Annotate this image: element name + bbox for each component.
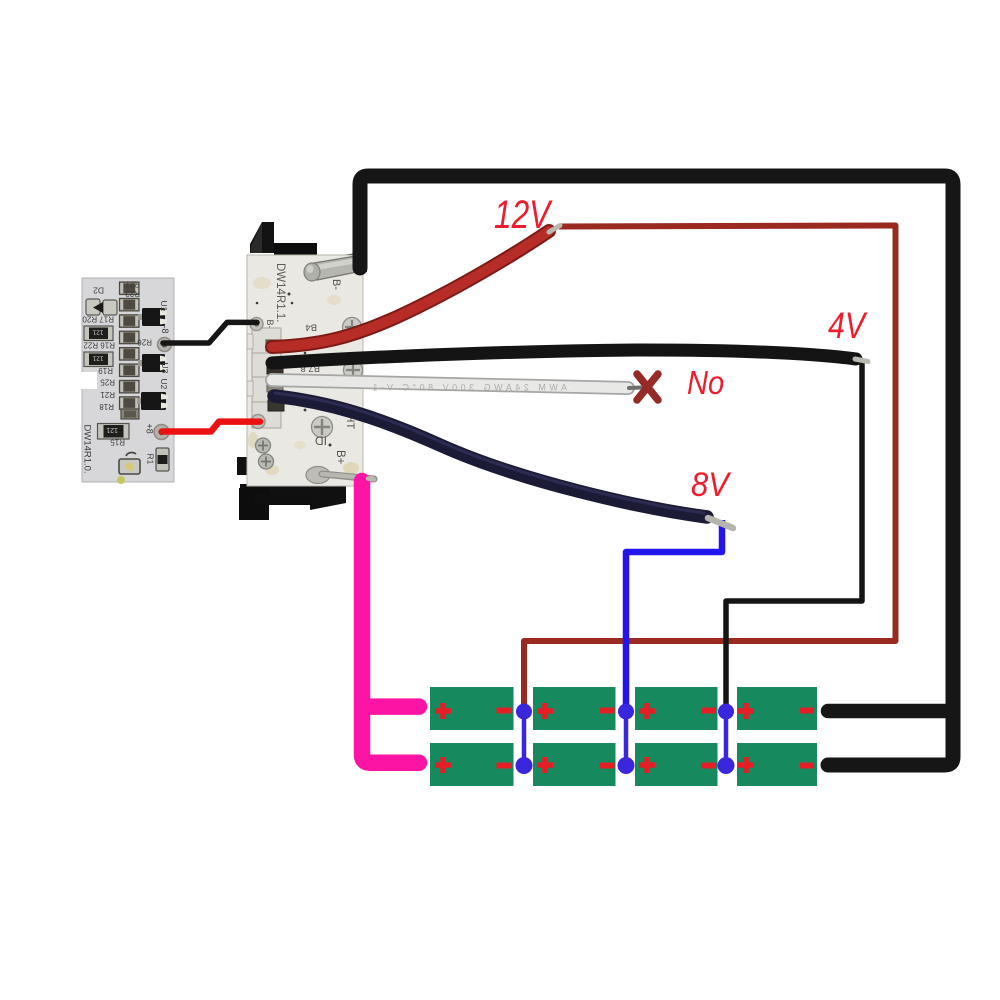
LED D2	[86, 299, 100, 315]
SOT23 U2	[137, 392, 168, 410]
cell 2 top	[533, 687, 616, 730]
SOT23 U3	[138, 354, 167, 372]
fiducial dots	[288, 293, 291, 296]
bracket top slab	[274, 243, 317, 256]
navy wire silver tip	[708, 518, 733, 528]
cell3 + -	[639, 703, 655, 719]
svg-text:U1: U1	[159, 301, 169, 312]
cell7 + -	[639, 757, 655, 773]
board	[82, 278, 174, 482]
red 12V wire	[272, 231, 549, 347]
cell8 + -	[738, 757, 754, 773]
svg-text:B4: B4	[305, 322, 317, 333]
svg-text:DW14R1.0.: DW14R1.0.	[82, 425, 93, 474]
red wire silver tip	[549, 226, 560, 233]
LED D1	[119, 459, 140, 474]
maroon 12V routing	[524, 226, 896, 712]
top-row cell black wire	[828, 704, 950, 719]
small green led bottom	[117, 476, 125, 484]
small screws bottom-left	[256, 438, 271, 453]
white wire	[272, 380, 628, 388]
svg-text:R17 R20: R17 R20	[82, 315, 114, 324]
svg-text:B-: B-	[330, 279, 342, 290]
crimp terminals	[266, 340, 282, 351]
cell 8 bottom	[737, 743, 817, 786]
svg-text:AWM 24AWG 300V 80°C V-1: AWM 24AWG 300V 80°C V-1	[369, 383, 567, 393]
svg-text:R23: R23	[125, 289, 140, 298]
black jumper wire B-	[163, 322, 257, 343]
svg-text:4V: 4V	[828, 305, 868, 347]
svg-text:+8: +8	[145, 424, 155, 434]
white wire tip	[629, 386, 642, 391]
screw 3	[312, 417, 333, 438]
jumper 2	[624, 712, 629, 766]
svg-text:R18: R18	[99, 402, 114, 411]
screw 1	[343, 318, 362, 337]
hole B+ central	[251, 415, 265, 429]
SOT23 U1	[138, 308, 167, 326]
red jumper wire B+	[162, 422, 260, 432]
bracket top-left black wedge	[250, 222, 274, 253]
cell1 + -	[435, 703, 451, 719]
cell 4 top	[737, 687, 817, 730]
R15	[98, 424, 130, 440]
cell5 + -	[435, 757, 451, 773]
resistor column R17-R27	[120, 282, 140, 419]
cell 6 bottom	[533, 743, 616, 786]
svg-text:R1: R1	[146, 454, 156, 465]
svg-text:ID: ID	[315, 434, 327, 448]
svg-text:R19: R19	[98, 366, 113, 375]
thin black 4V routing	[726, 360, 862, 711]
svg-text:U3: U3	[160, 363, 170, 374]
cell 5 bottom	[430, 743, 514, 786]
bottom solder blob + pin	[306, 467, 330, 484]
svg-text:R25: R25	[100, 378, 115, 387]
svg-text:R21: R21	[100, 390, 115, 399]
big resistor 2 (R22)	[84, 352, 113, 367]
bracket bottom pieces	[237, 457, 250, 475]
notch	[78, 372, 97, 389]
svg-text:B-: B-	[265, 320, 275, 329]
screw 2	[344, 361, 363, 380]
svg-text:12V: 12V	[494, 191, 553, 236]
solder blob top	[304, 263, 320, 281]
dark strip under lug	[315, 252, 367, 272]
svg-text:R15: R15	[110, 438, 125, 447]
black 4V wire	[272, 350, 856, 363]
big resistor 1 (R16)	[84, 326, 113, 341]
blue 8V routing	[626, 520, 722, 711]
navy 8V wire	[274, 396, 707, 517]
cell2 + -	[537, 703, 553, 719]
R1	[156, 448, 169, 471]
white connector	[252, 328, 281, 428]
cell 7 bottom	[635, 743, 718, 786]
svg-text:DW14R1.1.: DW14R1.1.	[274, 263, 286, 322]
hole +8 (red wire)	[154, 425, 169, 440]
svg-text:No: No	[687, 364, 724, 401]
pin tip over pink	[368, 476, 374, 481]
cell4 + -	[738, 703, 754, 719]
svg-text:8V: 8V	[691, 466, 732, 504]
svg-text:121: 121	[92, 354, 103, 361]
central white PCB board	[247, 255, 363, 486]
cell 1 top	[430, 687, 514, 730]
black wire silver tip	[855, 359, 868, 362]
cell6 + -	[537, 757, 553, 773]
jumper 3	[724, 712, 729, 766]
svg-text:D2: D2	[93, 286, 104, 296]
svg-text:R27: R27	[125, 280, 140, 289]
svg-text:-8: -8	[160, 326, 170, 334]
svg-text:121: 121	[92, 328, 103, 335]
hole -8 (black wire)	[158, 338, 172, 352]
svg-text:121: 121	[106, 426, 118, 433]
plus/minus marks	[435, 703, 814, 773]
svg-text:U2: U2	[159, 379, 169, 390]
X mark on white wire	[637, 374, 658, 400]
svg-text:R16 R22: R16 R22	[83, 341, 115, 350]
solder lug top	[314, 256, 362, 281]
svg-text:R26: R26	[137, 338, 152, 347]
jumper 1	[522, 712, 527, 766]
hole B- central	[250, 318, 263, 331]
cell 3 top	[635, 687, 718, 730]
svg-text:B+: B+	[334, 450, 346, 465]
